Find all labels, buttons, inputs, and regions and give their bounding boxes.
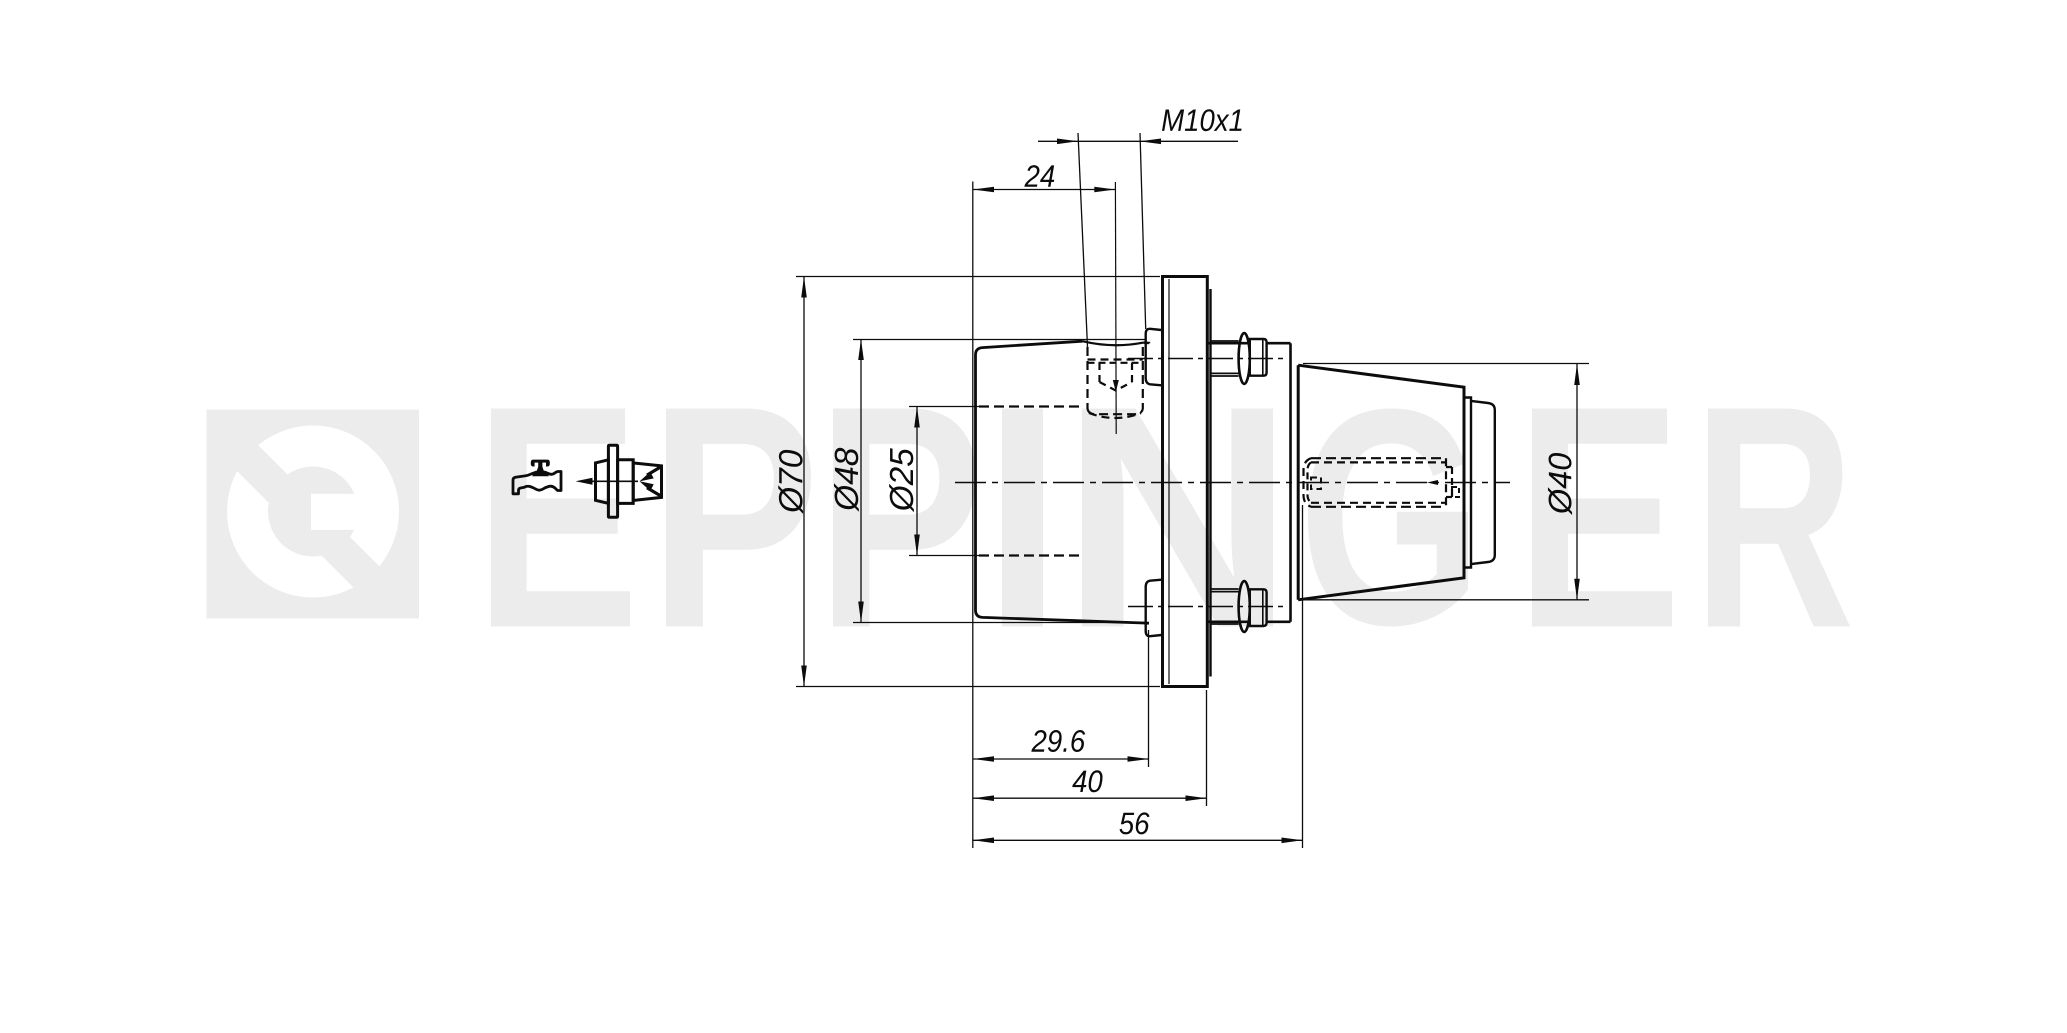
keyway / coolant bore hidden detail [1311, 457, 1446, 459]
Ø25 bore hidden lines [979, 405, 1084, 407]
coolant flow V arrows [647, 467, 661, 476]
dim M10x1 thread callout [1038, 140, 1238, 142]
bottom stud nut [1250, 589, 1267, 626]
flange Ø70 [1163, 277, 1208, 687]
top claw grip [1146, 329, 1162, 386]
Ø48 cylinder behind flange (split around stud nuts) [1207, 342, 1250, 345]
body top edge right of spot-face dip [1144, 341, 1150, 344]
dim 40 [973, 797, 1207, 799]
M10 hole centerline + depth arrow [1114, 182, 1117, 434]
bottom stud O-ring [1239, 581, 1250, 632]
nose end cap [1471, 401, 1495, 564]
holder icon body block [618, 460, 634, 504]
holder icon cone [633, 463, 661, 501]
tool holder icon body [596, 460, 609, 504]
M10x1 radial hole hidden outline [1086, 347, 1088, 409]
coolant faucet icon [513, 472, 561, 494]
cone outline [1298, 365, 1464, 600]
nose step ring [1464, 398, 1471, 568]
dim Ø25 [916, 407, 918, 556]
pilot disc behind flange [1209, 289, 1211, 677]
dim Ø48 [860, 339, 862, 623]
bottom claw grip [1146, 580, 1162, 637]
watermark EPPINGER letters [491, 409, 630, 627]
faucet handle [531, 460, 550, 467]
watermark logo square [120, 307, 440, 674]
cone big end face [1297, 365, 1300, 600]
top stud axis centerline [1128, 358, 1283, 360]
top stud nut [1250, 339, 1267, 376]
top stud O-ring [1239, 333, 1250, 384]
bottom stud axis centerline [1128, 606, 1283, 608]
dim 56 [973, 839, 1303, 841]
left common extension line [972, 182, 974, 849]
dim 24 [973, 189, 1115, 191]
dim Ø40 [1576, 364, 1578, 600]
main centerline [955, 482, 1510, 484]
dim 29.6 [973, 758, 1149, 760]
slant extension lines of thread [1078, 133, 1088, 347]
holder icon flange [608, 445, 617, 517]
holder icon centerline + arrow [590, 480, 638, 482]
left body (collet chuck body) outline [976, 341, 1150, 623]
bottom stud shaft [1211, 589, 1239, 624]
dim Ø70 [803, 277, 805, 687]
top stud shaft [1211, 341, 1239, 376]
M10 spot-face dip on body top [1083, 341, 1144, 345]
